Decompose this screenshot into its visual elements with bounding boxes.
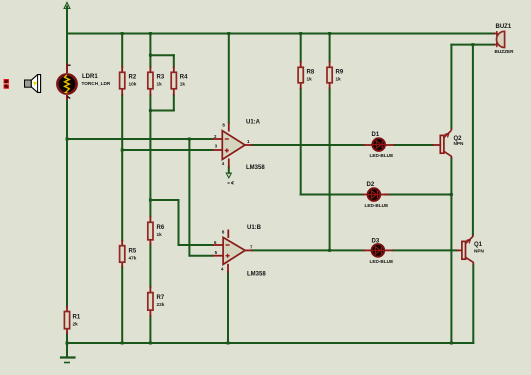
- wire U1:A pin4 to ground arrow: [228, 167, 230, 173]
- svg-text:LED-BLUE: LED-BLUE: [370, 259, 394, 264]
- transistor Q1: [457, 235, 474, 265]
- buzzer BUZ1: [494, 31, 505, 48]
- wire R1 to bottom rail: [66, 334, 68, 344]
- wire R2 node to U1:A plus: [122, 149, 212, 151]
- wire R8 to D2: [301, 194, 363, 196]
- wire Q2 collector up: [450, 45, 452, 129]
- wire U1:A pin8 from rail: [228, 34, 230, 123]
- op-amp U1:A: [213, 123, 253, 168]
- svg-text:1k: 1k: [157, 82, 163, 87]
- svg-text:1k: 1k: [307, 77, 313, 82]
- wire Q1 collector up: [472, 45, 474, 236]
- wire D2 to Q2 emitter line: [385, 194, 452, 196]
- ground arrow U1:A: [226, 173, 231, 178]
- svg-text:D1: D1: [372, 132, 380, 138]
- svg-text:1k: 1k: [157, 232, 163, 237]
- resistor R6: [148, 216, 153, 245]
- resistor R7: [148, 287, 153, 317]
- wire power stem: [66, 7, 68, 34]
- wire U1:A output to D1: [252, 144, 364, 146]
- wire D3 to Q1 base: [393, 249, 457, 251]
- wire R2 line top: [121, 34, 123, 67]
- wire R5 to bottom rail: [121, 267, 123, 343]
- svg-text:NPN: NPN: [454, 141, 465, 146]
- LED D3: [363, 244, 393, 257]
- svg-text:U1:A: U1:A: [246, 120, 261, 126]
- wire LDR bottom to R1: [66, 100, 68, 307]
- svg-text:1k: 1k: [180, 82, 186, 87]
- resistor R3: [148, 67, 153, 96]
- svg-text:U1:B: U1:B: [247, 225, 262, 231]
- svg-text:LM358: LM358: [247, 272, 266, 278]
- svg-text:R1: R1: [73, 315, 81, 321]
- svg-text:10k: 10k: [129, 82, 137, 87]
- wire R4 top: [173, 55, 175, 67]
- wire R3 bottom: [149, 95, 151, 111]
- wire R2 to R5: [121, 95, 123, 241]
- svg-text:R7: R7: [157, 295, 165, 301]
- wire R6 to R7: [149, 245, 151, 288]
- op-amp U1:B: [213, 230, 253, 273]
- wire Q2 emitter down: [450, 158, 452, 343]
- transistor Q2: [433, 129, 452, 159]
- svg-text:1k: 1k: [336, 77, 342, 82]
- svg-text:LED-BLUE: LED-BLUE: [365, 203, 389, 208]
- resistor R5: [120, 240, 125, 268]
- svg-text:LM358: LM358: [246, 165, 265, 171]
- svg-text:22k: 22k: [157, 302, 165, 307]
- wire node A horizontal (LDR to U1:A minus): [67, 138, 213, 140]
- svg-text:LDR1: LDR1: [82, 74, 98, 80]
- wire R7 to bottom rail: [149, 316, 151, 343]
- wire mid vertical to R6: [149, 111, 151, 217]
- wire U1:B output to D3: [252, 249, 364, 251]
- wire buzzer bottom: [451, 44, 493, 46]
- wire R6 node to U1:B minus: [150, 200, 212, 245]
- wire R8 line top: [300, 34, 302, 62]
- wire R3 feed from rail: [149, 34, 151, 56]
- wire Q1 emitter down: [472, 265, 474, 344]
- LDR1: [57, 64, 76, 101]
- resistor R9: [327, 61, 332, 89]
- svg-text:2k: 2k: [73, 322, 79, 327]
- wire R3 R4 top bridge: [150, 54, 173, 56]
- svg-text:D3: D3: [372, 239, 380, 245]
- svg-text:R8: R8: [307, 70, 315, 76]
- wire D1 to Q2 base: [394, 144, 433, 146]
- svg-text:Q1: Q1: [474, 242, 483, 248]
- wire R3 R4 bottom bridge: [150, 110, 173, 112]
- LED D1: [363, 138, 395, 151]
- wire R9 line top: [329, 34, 331, 62]
- ground: [66, 343, 68, 357]
- svg-text:BUZZER: BUZZER: [495, 49, 515, 54]
- wire R4 bottom: [173, 95, 175, 111]
- wire U1:B pin4 to bottom rail: [227, 272, 229, 343]
- svg-text:R5: R5: [129, 249, 137, 255]
- svg-text:NPN: NPN: [474, 249, 485, 254]
- torch light arrows: [4, 79, 9, 89]
- wire bottom rail: [67, 342, 473, 344]
- svg-text:R2: R2: [129, 75, 137, 81]
- wire LDR top: [66, 34, 68, 64]
- resistor R2: [120, 66, 125, 96]
- svg-text:D2: D2: [367, 182, 375, 188]
- wire top rail: [67, 33, 494, 35]
- svg-text:R9: R9: [336, 70, 344, 76]
- svg-text:R3: R3: [157, 75, 165, 81]
- svg-text:BUZ1: BUZ1: [496, 24, 512, 30]
- LED D2: [363, 188, 390, 201]
- resistor R4: [171, 67, 176, 96]
- power terminal arrow (top): [64, 2, 70, 8]
- wire R8 down: [300, 89, 302, 195]
- wire vertical to U1:B plus: [189, 139, 212, 256]
- torch (light source of LDR1): [25, 75, 41, 93]
- wire R9 down to D3 node: [329, 89, 331, 251]
- tiny text under ground arrow: [228, 181, 234, 184]
- resistor R8: [298, 61, 303, 89]
- svg-text:R4: R4: [180, 75, 188, 81]
- wire R3 top: [149, 55, 151, 67]
- svg-text:R6: R6: [157, 225, 165, 231]
- svg-text:TORCH_LDR: TORCH_LDR: [82, 81, 111, 86]
- svg-text:LED-BLUE: LED-BLUE: [370, 153, 394, 158]
- svg-text:47k: 47k: [129, 256, 137, 261]
- resistor R1: [64, 306, 69, 334]
